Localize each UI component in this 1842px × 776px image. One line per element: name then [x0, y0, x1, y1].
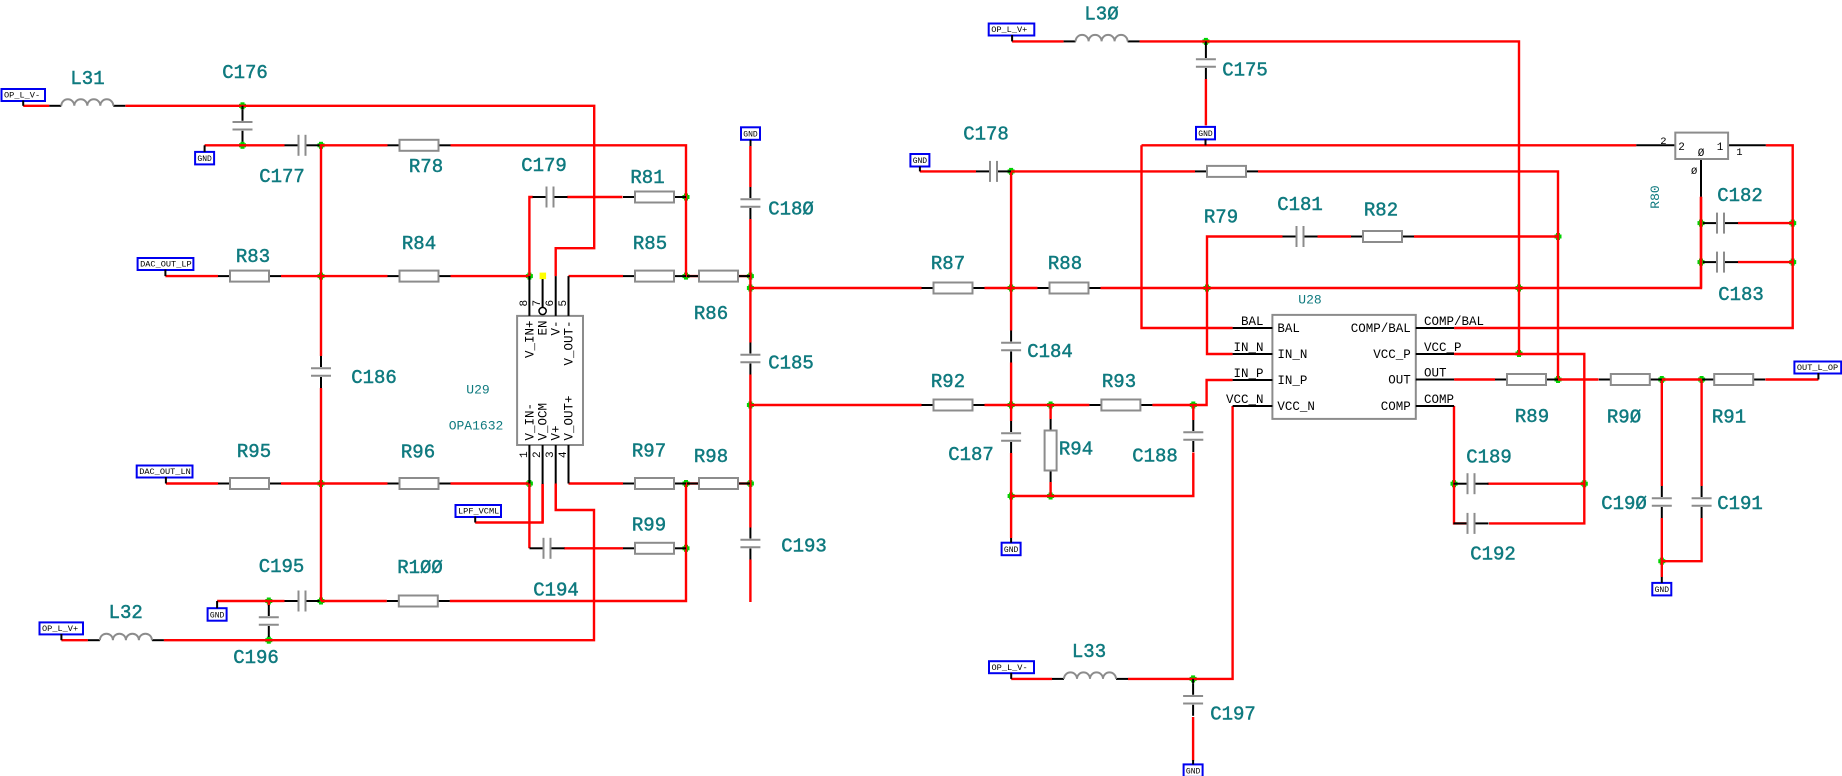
capacitor C197: [1183, 679, 1256, 726]
svg-text:GND: GND: [743, 131, 758, 140]
wire C194 to R99: [564, 547, 623, 549]
resistor R98: [687, 446, 750, 489]
svg-text:3: 3: [545, 451, 557, 458]
junction: [1516, 285, 1523, 292]
svg-text:U28: U28: [1298, 293, 1321, 308]
svg-text:R91: R91: [1712, 407, 1746, 429]
svg-text:R96: R96: [401, 442, 435, 464]
svg-text:OUT: OUT: [1388, 374, 1411, 388]
wire DAC_OUT_LN row: [166, 482, 530, 484]
junction: [747, 402, 754, 409]
svg-text:VCC_N: VCC_N: [1226, 393, 1264, 407]
capacitor C189: [1454, 447, 1512, 494]
resistor R89: [1495, 374, 1558, 428]
capacitor C175: [1196, 41, 1268, 125]
svg-text:C182: C182: [1717, 185, 1763, 207]
capacitor C188: [1132, 420, 1203, 468]
svg-text:OP_L_V+: OP_L_V+: [42, 624, 78, 634]
wire GND to C178: [920, 170, 976, 172]
capacitor C187: [948, 421, 1021, 466]
capacitor C176: [222, 62, 268, 142]
junction: [747, 480, 754, 487]
svg-text:GND: GND: [1198, 130, 1213, 139]
svg-text:GND: GND: [1004, 546, 1019, 555]
svg-text:C175: C175: [1222, 60, 1268, 82]
wire C197 to GND: [1192, 717, 1194, 761]
svg-text:Ø: Ø: [1691, 166, 1697, 178]
wire OP_L_V+ rail: [1012, 41, 1519, 353]
wire GND row right: [1142, 144, 1637, 146]
svg-text:R1ØØ: R1ØØ: [397, 557, 443, 579]
svg-text:EN: EN: [537, 321, 551, 336]
svg-text:DAC_OUT_LP: DAC_OUT_LP: [140, 260, 192, 270]
wire C181 left leg: [1207, 237, 1283, 355]
capacitor C193: [740, 528, 826, 560]
capacitor C192: [1454, 513, 1516, 566]
svg-text:OPA1632: OPA1632: [449, 419, 504, 434]
svg-text:2: 2: [1678, 142, 1685, 154]
resistor R84: [388, 233, 451, 281]
wire C188 top leg: [1192, 405, 1194, 420]
wire C187/R94/C188 bottom row: [1011, 453, 1193, 497]
svg-text:V_OUT+: V_OUT+: [563, 395, 577, 440]
svg-text:C18Ø: C18Ø: [768, 199, 814, 221]
junction: [747, 285, 754, 292]
junction: [683, 194, 690, 201]
svg-text:V_OUT-: V_OUT-: [563, 321, 577, 366]
svg-text:BAL: BAL: [1241, 315, 1264, 329]
svg-text:7: 7: [532, 300, 544, 307]
junction: [1789, 220, 1796, 227]
svg-text:C183: C183: [1718, 284, 1764, 306]
svg-text:R92: R92: [931, 371, 965, 393]
wire GND row left: [205, 144, 285, 146]
resistor R93: [1089, 371, 1152, 410]
svg-text:OUT_L_OP: OUT_L_OP: [1797, 363, 1838, 373]
net label DAC_OUT_LP: [138, 258, 194, 276]
svg-text:U29: U29: [466, 383, 489, 398]
inductor L32: [88, 602, 164, 640]
capacitor C196: [233, 605, 279, 669]
wire R94 legs: [1049, 405, 1051, 496]
svg-text:4: 4: [558, 451, 570, 458]
resistor R87: [922, 253, 985, 293]
junction: [1698, 259, 1705, 266]
svg-text:COMP/BAL: COMP/BAL: [1424, 315, 1484, 329]
wire VCC_N rail: [1011, 406, 1232, 679]
junction: [1008, 493, 1015, 500]
svg-text:COMP: COMP: [1381, 400, 1411, 414]
ground: [208, 601, 227, 621]
resistor R78: [388, 140, 451, 178]
net label OUT_L_OP: [1794, 362, 1841, 380]
ground: [741, 127, 760, 146]
svg-text:C193: C193: [781, 536, 827, 558]
junction: [1202, 38, 1209, 45]
svg-text:GND: GND: [913, 157, 928, 166]
svg-text:C194: C194: [533, 580, 579, 602]
svg-text:LPF_VCML: LPF_VCML: [458, 507, 499, 517]
net label LPF_VCML: [456, 505, 502, 523]
svg-text:C192: C192: [1470, 544, 1516, 566]
capacitor C190: [1601, 486, 1672, 518]
svg-text:R95: R95: [237, 441, 271, 463]
inductor L33: [1052, 641, 1128, 679]
junction: [1008, 285, 1015, 292]
capacitor C186: [311, 356, 397, 389]
wire DAC_OUT_LP row: [165, 275, 529, 277]
resistor R100: [387, 557, 450, 606]
svg-text:DAC_OUT_LN: DAC_OUT_LN: [139, 467, 191, 477]
svg-text:GND: GND: [210, 611, 225, 620]
wire OP_L_V+ bottom rail: [61, 484, 594, 641]
resistor R94: [1045, 419, 1094, 482]
svg-text:1: 1: [519, 451, 531, 458]
junction: [1047, 402, 1054, 409]
svg-text:C191: C191: [1717, 493, 1763, 515]
svg-text:R99: R99: [632, 515, 666, 537]
junction: [1698, 220, 1705, 227]
junction: [239, 142, 246, 149]
wire C189 right: [1488, 483, 1585, 485]
svg-text:R87: R87: [931, 253, 965, 275]
junction: [526, 273, 533, 280]
svg-text:C177: C177: [259, 166, 305, 188]
capacitor C180: [740, 187, 813, 221]
ground: [1184, 760, 1203, 776]
junction: [683, 545, 690, 552]
svg-text:V_OCM: V_OCM: [537, 403, 551, 441]
capacitor C182: [1703, 185, 1763, 233]
svg-text:Ø: Ø: [1698, 148, 1705, 160]
svg-text:R84: R84: [402, 233, 436, 255]
wire LPF_VCML to OCM: [475, 484, 542, 523]
svg-text:COMP/BAL: COMP/BAL: [1351, 322, 1411, 336]
wire C190 leg: [1661, 380, 1663, 578]
junction: [1581, 480, 1588, 487]
wire C178 to R79 and line B: [1011, 171, 1558, 379]
svg-text:R81: R81: [630, 167, 664, 189]
svg-text:IN_P: IN_P: [1233, 367, 1263, 381]
junction: [1555, 233, 1562, 240]
junction: [1451, 480, 1458, 487]
resistor R99: [623, 515, 686, 554]
resistor R85: [623, 233, 686, 281]
svg-text:OP_L_V-: OP_L_V-: [992, 663, 1028, 673]
svg-text:VCC_N: VCC_N: [1277, 400, 1315, 414]
svg-text:C195: C195: [259, 556, 305, 578]
resistor R90: [1599, 374, 1662, 429]
capacitor C185: [740, 343, 813, 375]
svg-text:R85: R85: [633, 233, 667, 255]
wire C180/C185/C193 line: [749, 146, 751, 602]
junction: [1658, 558, 1665, 565]
capacitor C179: [521, 155, 567, 207]
junction: [1658, 376, 1665, 383]
junction: [1008, 402, 1015, 409]
wire C182 right: [1738, 222, 1793, 224]
wire R86 to C-line: [686, 275, 750, 277]
svg-text:R86: R86: [694, 303, 728, 325]
wire BAL leg: [1142, 145, 1233, 328]
svg-text:R93: R93: [1102, 371, 1136, 393]
svg-text:C187: C187: [948, 444, 994, 466]
junction: [526, 480, 533, 487]
no-connect marker pin 7: [540, 273, 547, 280]
ground: [1002, 538, 1021, 555]
wire COMP leg: [1454, 406, 1467, 523]
capacitor C195: [259, 556, 320, 611]
op-amp U28: [1226, 293, 1484, 419]
svg-text:IN_N: IN_N: [1233, 341, 1263, 355]
junction: [265, 637, 272, 644]
junction: [683, 273, 690, 280]
svg-text:COMP: COMP: [1424, 393, 1454, 407]
resistor R88: [1038, 253, 1101, 293]
svg-text:V_IN+: V_IN+: [523, 321, 537, 359]
svg-text:OP_L_V+: OP_L_V+: [991, 25, 1027, 35]
svg-text:BAL: BAL: [1277, 322, 1300, 336]
junction: [1516, 350, 1523, 357]
capacitor C177: [259, 135, 319, 188]
capacitor C194: [530, 538, 579, 602]
wire C184/C187 line: [1010, 171, 1012, 538]
resistor R96: [388, 442, 451, 489]
svg-text:GND: GND: [1186, 768, 1201, 776]
svg-text:C188: C188: [1132, 446, 1178, 468]
wire VCC_P to C189/C192: [1454, 354, 1584, 523]
svg-text:R89: R89: [1515, 406, 1549, 428]
junction: [1555, 376, 1562, 383]
junction: [318, 142, 325, 149]
wire V_OUT+ to R97: [569, 482, 624, 484]
junction: [239, 102, 246, 109]
junction: [1698, 376, 1705, 383]
svg-text:GND: GND: [1655, 586, 1670, 595]
resistor R92: [922, 371, 985, 410]
svg-text:R98: R98: [694, 446, 728, 468]
resistor R97: [623, 441, 686, 489]
resistor network R80: [1636, 133, 1766, 209]
svg-text:C179: C179: [521, 155, 567, 177]
svg-text:R94: R94: [1059, 439, 1093, 461]
junction: [318, 480, 325, 487]
resistor R82: [1351, 200, 1414, 242]
ground: [1652, 577, 1671, 595]
wire C181 to R82: [1318, 235, 1352, 237]
wire R80 pin1 to COMP/BAL: [1454, 145, 1793, 328]
svg-text:L3Ø: L3Ø: [1084, 4, 1118, 26]
ground: [1196, 127, 1215, 145]
svg-text:L31: L31: [70, 68, 104, 90]
svg-text:C186: C186: [351, 367, 397, 389]
capacitor C181: [1277, 194, 1323, 247]
wire R98 to C-line: [686, 482, 750, 484]
wire C179 right to R81: [567, 196, 622, 198]
op-amp U29 OPA1632: [449, 276, 583, 522]
svg-text:R79: R79: [1204, 207, 1238, 229]
junction: [318, 598, 325, 605]
wire R100 row: [321, 484, 686, 602]
wire C194 leg: [528, 484, 530, 549]
svg-text:IN_N: IN_N: [1277, 348, 1307, 362]
junction: [1008, 168, 1015, 175]
net label DAC_OUT_LN: [137, 466, 193, 484]
svg-text:C196: C196: [233, 647, 279, 669]
svg-text:VCC_P: VCC_P: [1424, 341, 1462, 355]
junction: [1047, 493, 1054, 500]
svg-text:1: 1: [1736, 147, 1742, 159]
wire OUT row: [1454, 378, 1818, 380]
wire OP_L_V- top rail: [23, 106, 594, 276]
svg-text:R9Ø: R9Ø: [1607, 407, 1641, 429]
net label OP_L_V- lower: [989, 661, 1034, 679]
wire R92/R93 row: [750, 380, 1232, 405]
wire C191 leg: [1662, 380, 1702, 562]
junction: [683, 480, 690, 487]
svg-text:OP_L_V-: OP_L_V-: [4, 91, 40, 101]
svg-text:R83: R83: [236, 246, 270, 268]
wire GND to C195: [217, 600, 284, 602]
svg-text:C181: C181: [1277, 194, 1323, 216]
wire vertical node line x321: [320, 145, 322, 601]
svg-text:5: 5: [558, 300, 570, 307]
wire C179 left leg: [529, 197, 532, 276]
svg-text:C184: C184: [1027, 341, 1073, 363]
resistor R95: [218, 441, 281, 489]
capacitor C178: [963, 124, 1011, 182]
svg-text:OUT: OUT: [1424, 367, 1447, 381]
svg-text:V_IN-: V_IN-: [523, 403, 537, 441]
junction: [1789, 259, 1796, 266]
svg-text:1: 1: [1717, 142, 1724, 154]
resistor R83: [218, 246, 281, 281]
net label OP_L_V+ lower: [40, 622, 84, 640]
junction: [1190, 402, 1197, 409]
ground: [910, 154, 929, 171]
svg-text:2: 2: [532, 451, 544, 458]
resistor R81: [623, 167, 686, 202]
ground: [195, 145, 214, 164]
wire R82 to line B: [1414, 235, 1558, 237]
wire C183 right: [1738, 261, 1793, 263]
capacitor C184: [1001, 331, 1073, 364]
capacitor C183: [1703, 252, 1764, 307]
junction: [318, 273, 325, 280]
wire R87/R88 feedback row: [750, 197, 1701, 288]
svg-text:8: 8: [519, 300, 531, 307]
svg-text:6: 6: [545, 300, 557, 307]
junction: [1204, 285, 1211, 292]
net label OP_L_V+ upper: [989, 24, 1035, 42]
wire C196 top leg: [268, 601, 270, 606]
svg-text:C185: C185: [768, 353, 814, 375]
wire V_OUT- to R85: [569, 275, 624, 277]
svg-text:C19Ø: C19Ø: [1601, 493, 1647, 515]
junction: [1190, 675, 1197, 682]
svg-text:L32: L32: [109, 602, 143, 624]
svg-text:C189: C189: [1466, 447, 1512, 469]
wire R78 to R81/R85 junction: [451, 145, 687, 276]
svg-text:R88: R88: [1048, 253, 1082, 275]
svg-text:C176: C176: [222, 62, 268, 84]
capacitor C191: [1692, 486, 1763, 518]
svg-text:R80: R80: [1648, 185, 1663, 208]
svg-text:C197: C197: [1210, 704, 1256, 726]
resistor R79: [1195, 166, 1258, 229]
svg-text:2: 2: [1660, 136, 1666, 148]
resistor R86: [687, 271, 750, 326]
wire R80 pin0 to caps: [1700, 197, 1702, 288]
svg-text:C178: C178: [963, 124, 1009, 146]
svg-text:VCC_P: VCC_P: [1373, 348, 1411, 362]
svg-text:R97: R97: [632, 441, 666, 463]
inductor L31: [49, 68, 125, 106]
svg-text:R78: R78: [409, 156, 443, 178]
svg-text:GND: GND: [197, 155, 212, 164]
svg-text:R82: R82: [1364, 200, 1398, 222]
svg-text:IN_P: IN_P: [1277, 374, 1307, 388]
junction: [265, 598, 272, 605]
junction: [747, 273, 754, 280]
wire C177 to R78: [320, 144, 388, 146]
net label OP_L_V-: [2, 89, 46, 106]
svg-text:L33: L33: [1072, 641, 1106, 663]
resistor R91: [1702, 374, 1765, 429]
inductor L30: [1064, 4, 1140, 42]
